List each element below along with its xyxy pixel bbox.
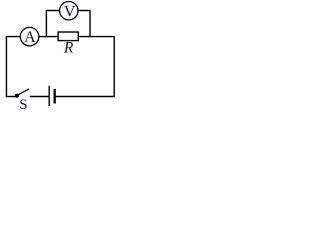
svg-text:R: R bbox=[63, 40, 74, 57]
svg-text:S: S bbox=[19, 97, 27, 110]
svg-text:A: A bbox=[24, 29, 36, 46]
svg-text:V: V bbox=[64, 4, 76, 21]
